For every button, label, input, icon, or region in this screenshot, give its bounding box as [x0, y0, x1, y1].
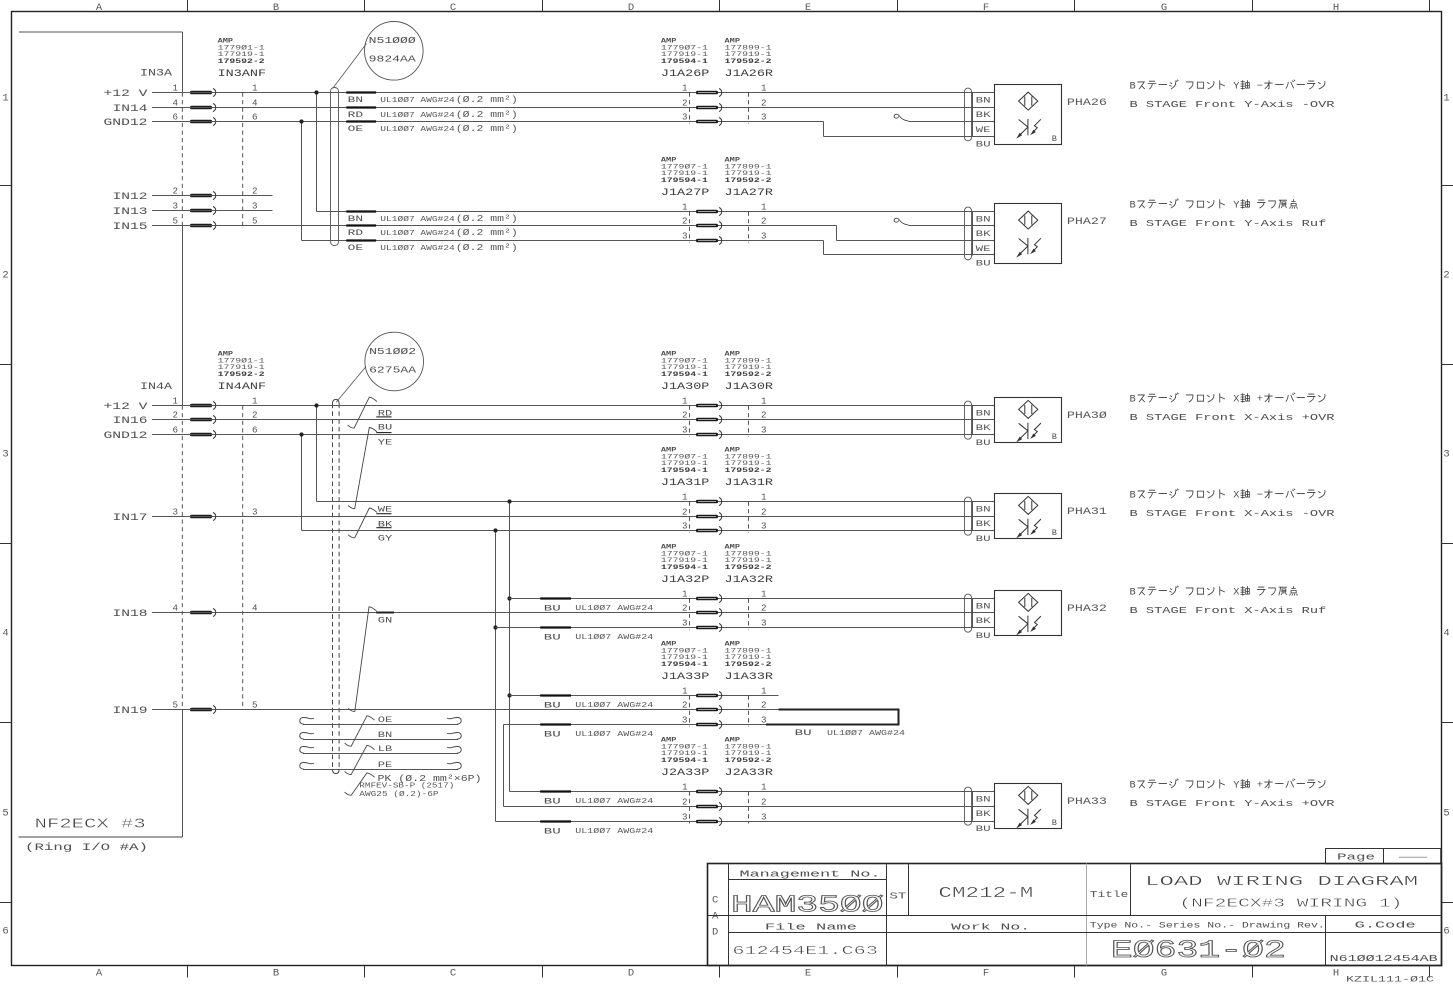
wire color tick BN	[346, 210, 376, 212]
connector J1A26R dashed boundary	[748, 93, 750, 124]
title block CAD column divider	[728, 864, 730, 966]
connector J1A31P dashed boundary	[689, 502, 691, 533]
svg-text:RMFEV-SB-P (2517): RMFEV-SB-P (2517)	[359, 783, 454, 791]
title block management header underline	[729, 879, 887, 881]
cable callout circle N51000 9824AA	[365, 22, 424, 81]
wire color tick OE	[346, 120, 376, 122]
svg-text:1: 1	[2, 93, 8, 105]
svg-text:B STAGE Front Y-Axis -OVR: B STAGE Front Y-Axis -OVR	[1130, 99, 1335, 110]
svg-text:YE: YE	[378, 437, 393, 447]
title block management cell divider	[886, 864, 888, 966]
svg-text:Y: Y	[1233, 200, 1239, 212]
svg-text:6275AA: 6275AA	[369, 365, 416, 376]
wire IN19 to J1A33 pin2	[152, 709, 779, 711]
svg-text:2: 2	[682, 410, 688, 421]
svg-text:1: 1	[761, 492, 767, 503]
row tick marks left/right	[0, 185, 12, 187]
description JP PHA31	[1130, 489, 1325, 502]
hookup wire tick BU	[540, 626, 571, 628]
svg-text:+: +	[1257, 394, 1263, 406]
svg-text:J1A27R: J1A27R	[725, 188, 774, 199]
svg-text:1: 1	[682, 202, 688, 213]
svg-text:179594-1: 179594-1	[661, 58, 708, 66]
svg-text:BK: BK	[976, 230, 991, 239]
leader line from N51002 circle to cable	[336, 367, 366, 403]
svg-text:PHA31: PHA31	[1067, 507, 1107, 518]
wire IN15 step down to PHA27 WE	[836, 226, 838, 241]
svg-text:BK: BK	[976, 111, 991, 120]
crimp contact J2A33P pin 1	[696, 790, 718, 794]
photo sensor PHA26 emitter diamond symbol	[1019, 92, 1038, 110]
photo sensor PHA32 lead cell divider	[972, 599, 974, 628]
svg-text:J2A33P: J2A33P	[661, 768, 710, 779]
node GND bus tap PHA31 BU	[493, 528, 497, 532]
svg-text:179592-2: 179592-2	[725, 661, 772, 669]
IN3A crimp contacts	[190, 91, 212, 95]
description JP PHA33	[1130, 779, 1325, 792]
svg-text:2: 2	[682, 700, 688, 711]
IN4A crimp contacts	[190, 404, 212, 408]
crimp contact J2A33P pin 3	[696, 820, 718, 824]
svg-text:3: 3	[1443, 449, 1449, 461]
svg-text:BU: BU	[544, 632, 561, 642]
svg-text:HAM35ØØ: HAM35ØØ	[731, 892, 884, 919]
svg-text:1: 1	[761, 202, 767, 213]
svg-text:179594-1: 179594-1	[661, 661, 708, 669]
svg-text:Y: Y	[1233, 780, 1239, 792]
wire GND12 step down to PHA26 BU	[823, 122, 825, 137]
svg-text:Management No.: Management No.	[740, 869, 881, 879]
svg-text:6: 6	[2, 926, 8, 938]
svg-text:GY: GY	[378, 533, 393, 543]
svg-text:N61ØØ12454AB: N61ØØ12454AB	[1330, 953, 1438, 964]
svg-text:B: B	[1052, 528, 1057, 538]
photo sensor PHA30 lead cell divider	[972, 406, 974, 435]
svg-text:BU: BU	[544, 603, 561, 613]
controller NF2ECX #3 box outline	[19, 31, 183, 33]
photo sensor PHA27 lead cell divider	[972, 212, 974, 256]
svg-text:179592-2: 179592-2	[218, 58, 265, 66]
IN4A connector boundary dashed line right	[242, 406, 244, 710]
svg-text:J1A26R: J1A26R	[725, 69, 774, 80]
svg-text:BU: BU	[976, 632, 991, 641]
node GND12 group2 branch junction	[299, 432, 303, 436]
crimp contact J1A32P pin 1	[696, 597, 718, 601]
svg-text:B STAGE Front X-Axis -OVR: B STAGE Front X-Axis -OVR	[1130, 508, 1335, 519]
leader stroke BK to GY	[348, 508, 377, 538]
wire GND12 group2 branch down	[301, 435, 303, 531]
wire +12V branch down to PHA27 BN	[316, 93, 318, 212]
wire J2A33 pin3 feed from GND bus	[496, 821, 995, 823]
crimp contact J2A33P pin 2	[696, 805, 718, 809]
node bus tap J1A33 pin1	[507, 693, 511, 697]
svg-text:X: X	[1233, 587, 1239, 599]
description JP PHA32	[1130, 586, 1298, 599]
connector J1A33P dashed boundary	[689, 696, 691, 727]
svg-text:UL1ØØ7 AWG#24(Ø.2 mm²): UL1ØØ7 AWG#24(Ø.2 mm²)	[380, 95, 518, 105]
leader line from N51000 circle to cable	[333, 44, 367, 89]
svg-text:5: 5	[1443, 808, 1449, 820]
svg-text:B: B	[273, 2, 279, 14]
node bus tap PHA31 BN	[507, 499, 511, 503]
node GND12 branch junction	[299, 119, 303, 123]
svg-text:3: 3	[761, 112, 767, 123]
hookup wire tick BU	[540, 790, 571, 792]
svg-text:BU: BU	[976, 439, 991, 448]
svg-text:3: 3	[761, 425, 767, 436]
photo sensor PHA33 lead cell divider	[972, 792, 974, 821]
svg-text:KZIL111-Ø1C: KZIL111-Ø1C	[1346, 975, 1434, 985]
svg-text:BU: BU	[976, 259, 991, 268]
photo sensor PHA32 cable capsule	[965, 594, 972, 632]
svg-text:J1A32P: J1A32P	[661, 575, 710, 586]
svg-text:LOAD WIRING DIAGRAM: LOAD WIRING DIAGRAM	[1145, 875, 1418, 890]
svg-text:IN16: IN16	[113, 415, 148, 426]
crimp contact J1A33P pin 3	[696, 723, 718, 727]
wire PHA27 BU feed step down	[823, 241, 825, 255]
svg-text:3: 3	[682, 812, 688, 823]
svg-text:179592-2: 179592-2	[725, 371, 772, 379]
node +12V group2 branch junction	[314, 403, 318, 407]
svg-text:BU: BU	[378, 422, 393, 432]
wire IN13 spare stub	[152, 210, 273, 212]
svg-text:179594-1: 179594-1	[661, 757, 708, 765]
svg-text:179592-2: 179592-2	[725, 757, 772, 765]
wire color tick GN	[376, 612, 394, 614]
svg-text:BN: BN	[976, 410, 991, 419]
crimp contact J1A26P pin 3	[696, 120, 718, 124]
leader stroke GN	[348, 607, 377, 712]
svg-text:PHA33: PHA33	[1067, 797, 1107, 808]
svg-text:UL1ØØ7 AWG#24: UL1ØØ7 AWG#24	[575, 730, 653, 739]
hookup wire tick BU	[540, 820, 571, 822]
photo sensor PHA30 body box	[995, 398, 1062, 443]
svg-text:F: F	[983, 2, 989, 14]
IN3A connector boundary dashed line left	[181, 93, 183, 226]
wire color tick OE	[346, 239, 376, 241]
svg-text:IN3ANF: IN3ANF	[218, 69, 267, 80]
photo sensor PHA27 emitter diamond symbol	[1019, 211, 1038, 229]
svg-text:Title: Title	[1090, 889, 1129, 900]
svg-text:UL1ØØ7 AWG#24(Ø.2 mm²): UL1ØØ7 AWG#24(Ø.2 mm²)	[380, 110, 518, 120]
title block light divider before Title	[1086, 864, 1088, 966]
crimp contact J1A31P pin 2	[696, 515, 718, 519]
connector J1A33R dashed boundary	[748, 696, 750, 727]
photo sensor PHA30 receiver phototransistor symbol	[1027, 423, 1029, 439]
description JP PHA26	[1130, 80, 1325, 93]
svg-text:UL1ØØ7 AWG#24(Ø.2 mm²): UL1ØØ7 AWG#24(Ø.2 mm²)	[380, 228, 518, 238]
svg-text:IN17: IN17	[113, 512, 148, 523]
svg-text:G: G	[1161, 968, 1167, 980]
leader stroke RD	[348, 397, 377, 428]
svg-text:ST: ST	[889, 891, 906, 902]
crimp contact J1A26P pin 1	[696, 91, 718, 95]
svg-text:X: X	[1233, 490, 1239, 502]
svg-text:BN: BN	[348, 95, 363, 105]
svg-text:J1A31R: J1A31R	[725, 478, 774, 489]
svg-text:2: 2	[2, 270, 8, 282]
svg-text:PHA3Ø: PHA3Ø	[1067, 410, 1107, 422]
crimp contact J1A30P pin 2	[696, 418, 718, 422]
svg-text:D: D	[712, 927, 718, 939]
svg-text:IN12: IN12	[113, 191, 148, 202]
svg-text:−: −	[1257, 490, 1263, 502]
svg-text:179592-2: 179592-2	[725, 467, 772, 475]
photo sensor PHA26 body box	[995, 85, 1062, 145]
svg-text:B: B	[1130, 394, 1136, 406]
svg-text:B: B	[1130, 200, 1136, 212]
svg-text:A: A	[96, 2, 103, 14]
svg-text:179592-2: 179592-2	[725, 177, 772, 185]
wire GND12 IN4A pin6 to PHA30 BU	[152, 434, 995, 436]
photo sensor PHA27 cable capsule	[965, 207, 972, 260]
wire IN15 to PHA27	[152, 225, 837, 227]
crimp contact J1A31P pin 1	[696, 500, 718, 504]
svg-text:2: 2	[761, 216, 767, 227]
connector J1A32R dashed boundary	[748, 599, 750, 630]
photo sensor PHA26 receiver phototransistor symbol	[1027, 119, 1029, 135]
svg-text:BU: BU	[544, 796, 561, 806]
svg-text:Page: Page	[1337, 853, 1375, 863]
svg-text:UL1ØØ7 AWG#24: UL1ØØ7 AWG#24	[575, 604, 653, 613]
svg-text:GND12: GND12	[104, 430, 148, 441]
crimp contact J1A27P pin 2	[696, 224, 718, 228]
svg-text:(NF2ECX#3 WIRING 1): (NF2ECX#3 WIRING 1)	[1179, 896, 1402, 910]
svg-text:GND12: GND12	[104, 117, 148, 128]
svg-text:BU: BU	[544, 700, 561, 710]
svg-text:2: 2	[682, 603, 688, 614]
wire PHA27 BK unconnected with pigtail	[894, 218, 908, 225]
svg-text:2: 2	[761, 700, 767, 711]
svg-text:2: 2	[761, 507, 767, 518]
svg-text:Work No.: Work No.	[951, 923, 1030, 933]
svg-text:BN: BN	[976, 506, 991, 515]
crimp contact J1A32P pin 3	[696, 626, 718, 630]
wire PHA31 BN feed	[317, 501, 995, 503]
leader stroke PK	[345, 773, 375, 795]
page number box	[1326, 849, 1441, 864]
svg-text:J1A30R: J1A30R	[725, 382, 774, 393]
svg-text:179594-1: 179594-1	[661, 371, 708, 379]
svg-text:Type No.- Series No.- Drawing: Type No.- Series No.- Drawing Rev.	[1090, 920, 1325, 930]
svg-text:4: 4	[2, 628, 8, 640]
svg-text:IN19: IN19	[113, 705, 148, 716]
crimp contact J1A33P pin 1	[696, 694, 718, 698]
svg-text:(Ring I/O #A): (Ring I/O #A)	[25, 842, 148, 854]
svg-text:B: B	[1052, 432, 1057, 442]
svg-text:WE: WE	[976, 245, 991, 254]
svg-text:WE: WE	[976, 126, 991, 135]
svg-text:IN13: IN13	[113, 206, 148, 217]
svg-text:2: 2	[761, 603, 767, 614]
svg-text:BK: BK	[976, 617, 991, 626]
wire IN14 to PHA26 BK	[152, 107, 995, 109]
title block outline	[708, 864, 1442, 966]
bus +12V distribution vertical	[509, 502, 511, 792]
connector J1A26P dashed boundary	[689, 93, 691, 124]
wire PHA26 WE unconnected with pigtail	[894, 114, 908, 121]
svg-text:2: 2	[761, 797, 767, 808]
svg-text:A: A	[712, 911, 719, 923]
photo sensor PHA32 receiver phototransistor symbol	[1027, 616, 1029, 632]
photo sensor PHA33 receiver phototransistor symbol	[1027, 809, 1029, 825]
svg-text:Y: Y	[1233, 81, 1239, 93]
photo sensor PHA31 lead cell divider	[972, 502, 974, 531]
svg-text:D: D	[628, 968, 634, 980]
photo sensor PHA31 body box	[995, 494, 1062, 539]
svg-text:RD: RD	[348, 228, 363, 238]
svg-text:1: 1	[682, 492, 688, 503]
svg-text:+12 V: +12 V	[104, 401, 148, 412]
svg-text:1: 1	[761, 396, 767, 407]
cable callout circle N51002 6275AA	[365, 332, 424, 391]
svg-text:BN: BN	[976, 603, 991, 612]
svg-text:3: 3	[761, 618, 767, 629]
wire PHA27 BU feed horizontal	[302, 240, 824, 242]
svg-text:IN14: IN14	[113, 103, 148, 114]
wire GND12 branch down to PHA27 BU feed	[301, 122, 303, 241]
svg-text:2: 2	[761, 98, 767, 109]
svg-text:NF2ECX #3: NF2ECX #3	[35, 818, 146, 833]
svg-text:1: 1	[761, 83, 767, 94]
connector J2A33P dashed boundary	[689, 792, 691, 824]
svg-text:3: 3	[682, 425, 688, 436]
wire PHA27 BN feed	[317, 211, 995, 213]
svg-text:179594-1: 179594-1	[661, 564, 708, 572]
svg-text:+12 V: +12 V	[104, 88, 148, 99]
svg-text:BU: BU	[795, 728, 812, 738]
svg-text:B: B	[273, 968, 279, 980]
connector J1A32P dashed boundary	[689, 599, 691, 630]
svg-text:1: 1	[761, 686, 767, 697]
svg-text:RD: RD	[348, 110, 363, 120]
svg-text:2: 2	[682, 216, 688, 227]
svg-text:J1A26P: J1A26P	[661, 69, 710, 80]
wire PHA31 BU feed	[302, 530, 995, 532]
svg-text:B STAGE Front Y-Axis +OVR: B STAGE Front Y-Axis +OVR	[1130, 798, 1335, 809]
photo sensor PHA32 body box	[995, 591, 1062, 636]
svg-text:X: X	[1233, 394, 1239, 406]
photo sensor PHA33 emitter diamond symbol	[1019, 786, 1038, 804]
photo sensor PHA31 cable capsule	[965, 497, 972, 535]
svg-text:B STAGE Front X-Axis Ruf: B STAGE Front X-Axis Ruf	[1130, 605, 1327, 616]
cable 2 sheath dashed outline	[332, 404, 334, 770]
leader stroke OE	[345, 716, 375, 746]
node GND bus tap PHA32 BU	[493, 625, 497, 629]
svg-text:G.Code: G.Code	[1355, 920, 1416, 930]
crimp contact J1A30P pin 3	[696, 433, 718, 437]
hookup wire tick BU	[540, 694, 571, 696]
svg-text:3: 3	[761, 231, 767, 242]
wire color tick BN	[346, 91, 376, 93]
svg-text:BN: BN	[976, 796, 991, 805]
photo sensor PHA32 emitter diamond symbol	[1019, 593, 1038, 611]
crimp contact J1A33P pin 2	[696, 708, 718, 712]
svg-text:J1A30P: J1A30P	[661, 382, 710, 393]
column tick marks top/bottom	[187, 0, 189, 12]
svg-text:C: C	[450, 968, 456, 980]
crimp contact J1A26P pin 2	[696, 106, 718, 110]
svg-text:B: B	[1130, 780, 1136, 792]
wire GND12 IN3A pin6	[152, 121, 824, 123]
svg-text:E: E	[805, 2, 811, 14]
connector J1A31R dashed boundary	[748, 502, 750, 533]
svg-text:179592-2: 179592-2	[725, 58, 772, 66]
svg-text:BU: BU	[976, 825, 991, 834]
svg-text:C: C	[712, 895, 718, 907]
svg-text:1: 1	[761, 589, 767, 600]
svg-text:IN4ANF: IN4ANF	[218, 382, 267, 393]
svg-text:H: H	[1333, 968, 1339, 980]
svg-text:PHA26: PHA26	[1067, 98, 1107, 109]
photo sensor PHA31 emitter diamond symbol	[1019, 496, 1038, 514]
cable 1 sheath capsule	[331, 88, 339, 246]
svg-text:B: B	[1130, 490, 1136, 502]
crimp contact J1A32P pin 2	[696, 611, 718, 615]
photo sensor PHA26 lead cell divider	[972, 93, 974, 137]
svg-text:BU: BU	[544, 729, 561, 739]
photo sensor PHA27 body box	[995, 204, 1062, 264]
svg-text:LB: LB	[378, 744, 393, 754]
wire color tick RD	[346, 224, 376, 226]
svg-text:IN15: IN15	[113, 221, 148, 232]
title block G.Code divider	[1325, 916, 1327, 966]
svg-text:AWG25 (Ø.2)-6P: AWG25 (Ø.2)-6P	[359, 790, 438, 799]
wire +12V IN3A pin1 to PHA26 BN	[152, 92, 995, 94]
IN3A connector boundary dashed line right	[242, 93, 244, 226]
hookup wire tick BU	[540, 597, 571, 599]
svg-text:F: F	[983, 968, 989, 980]
photo sensor PHA26 cable capsule	[965, 88, 972, 141]
crimp contact J1A30P pin 1	[696, 404, 718, 408]
svg-text:D: D	[628, 2, 634, 14]
svg-text:IN18: IN18	[113, 608, 148, 619]
svg-text:E: E	[805, 968, 811, 980]
description JP PHA30	[1130, 393, 1325, 406]
svg-text:B: B	[1052, 134, 1057, 144]
svg-text:3: 3	[761, 812, 767, 823]
svg-text:H: H	[1333, 2, 1339, 14]
title block ST cell divider	[908, 864, 910, 916]
svg-text:B: B	[1130, 81, 1136, 93]
svg-text:J2A33R: J2A33R	[725, 768, 774, 779]
wire J2A33 pin1 feed from +12V bus	[510, 791, 995, 793]
photo sensor PHA31 receiver phototransistor symbol	[1027, 519, 1029, 535]
svg-text:B: B	[1052, 818, 1057, 828]
crimp contact J1A31P pin 3	[696, 529, 718, 533]
svg-text:UL1ØØ7 AWG#24: UL1ØØ7 AWG#24	[575, 797, 653, 806]
crimp contact J1A27P pin 1	[696, 210, 718, 214]
svg-text:179594-1: 179594-1	[661, 177, 708, 185]
svg-text:N51ØØØ: N51ØØØ	[369, 35, 416, 46]
svg-text:EØ631-Ø2: EØ631-Ø2	[1111, 936, 1286, 965]
svg-text:WE: WE	[378, 504, 393, 514]
svg-text:BN: BN	[348, 214, 363, 224]
svg-text:6: 6	[1443, 926, 1449, 938]
svg-text:3: 3	[682, 112, 688, 123]
svg-text:UL1ØØ7 AWG#24(Ø.2 mm²): UL1ØØ7 AWG#24(Ø.2 mm²)	[380, 243, 518, 253]
hookup wire tick BU	[540, 723, 571, 725]
svg-text:3: 3	[2, 449, 8, 461]
title block header underline row2	[729, 932, 1442, 934]
svg-text:OE: OE	[378, 715, 393, 725]
svg-text:CM212-M: CM212-M	[938, 886, 1033, 902]
svg-text:3: 3	[761, 521, 767, 532]
description JP PHA27	[1130, 199, 1298, 212]
svg-text:9824AA: 9824AA	[369, 54, 416, 65]
svg-text:File Name: File Name	[765, 923, 857, 933]
svg-text:B: B	[1130, 587, 1136, 599]
